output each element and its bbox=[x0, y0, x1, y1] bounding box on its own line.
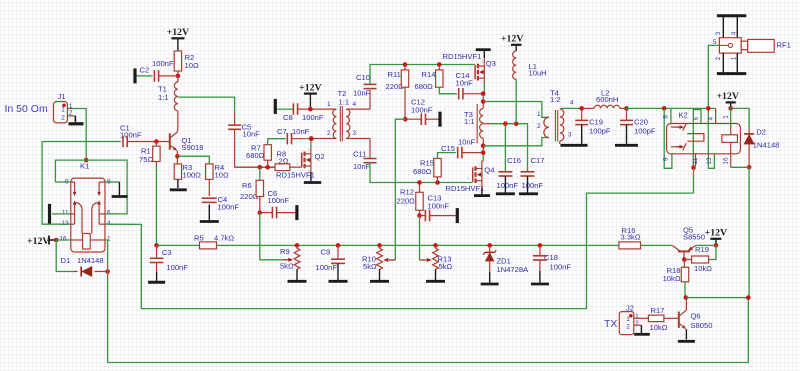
svg-text:C16: C16 bbox=[507, 156, 521, 165]
port C12 terminal bbox=[438, 112, 441, 127]
ground R9 bbox=[288, 280, 307, 283]
junction Q4 drain C15 bbox=[481, 150, 486, 155]
svg-text:TX: TX bbox=[604, 318, 617, 330]
transformer T1 bbox=[158, 76, 178, 129]
wire K1 pin9 bbox=[55, 181, 70, 183]
diode D1 1N4148 bbox=[61, 256, 108, 277]
power +12V K2 bbox=[716, 91, 738, 108]
junction L1 tap bbox=[514, 121, 519, 126]
svg-text:100Ω: 100Ω bbox=[183, 170, 202, 179]
wire C5 to R8 bbox=[235, 166, 276, 168]
wire Q3 gate rail bbox=[405, 64, 475, 66]
svg-text:680Ω: 680Ω bbox=[413, 167, 432, 176]
svg-text:2: 2 bbox=[61, 115, 65, 122]
svg-text:1: 1 bbox=[731, 56, 738, 60]
junction K1 feed bbox=[84, 158, 89, 163]
svg-text:8: 8 bbox=[662, 114, 669, 118]
svg-text:100nF: 100nF bbox=[152, 59, 174, 68]
wire antenna line bbox=[627, 107, 716, 109]
svg-text:4.7kΩ: 4.7kΩ bbox=[214, 234, 234, 243]
svg-text:13: 13 bbox=[706, 157, 713, 165]
wire K2 pin4 stub bbox=[715, 108, 717, 123]
svg-text:100nF: 100nF bbox=[166, 263, 188, 272]
potentiometer R9 bbox=[280, 245, 300, 280]
relay K1 bbox=[59, 162, 111, 253]
junction C16 tap bbox=[503, 121, 508, 126]
capacitor C3 bbox=[150, 245, 188, 281]
svg-text:S8550: S8550 bbox=[683, 233, 705, 242]
svg-text:3: 3 bbox=[481, 59, 484, 64]
svg-text:C9: C9 bbox=[321, 248, 331, 257]
svg-text:1: 1 bbox=[723, 115, 730, 119]
svg-text:R19: R19 bbox=[695, 245, 709, 254]
junction C18 bbox=[538, 243, 543, 248]
svg-text:100nF: 100nF bbox=[428, 202, 450, 211]
capacitor C17 bbox=[521, 156, 545, 193]
svg-text:10uH: 10uH bbox=[529, 68, 547, 77]
junction R10 pot bbox=[377, 243, 382, 248]
svg-text:K2: K2 bbox=[678, 111, 687, 120]
wire RF1 to K2 bbox=[708, 45, 719, 168]
svg-text:100nF: 100nF bbox=[316, 263, 338, 272]
svg-text:16: 16 bbox=[59, 236, 67, 243]
resistor R15 bbox=[413, 153, 456, 183]
svg-text:3: 3 bbox=[568, 132, 572, 139]
resistor R1 bbox=[139, 142, 160, 167]
wire Q4 bias to R13 bbox=[419, 216, 421, 260]
wire K1 loop bbox=[55, 160, 127, 214]
svg-text:220Ω: 220Ω bbox=[397, 196, 416, 205]
svg-text:Q3: Q3 bbox=[486, 59, 496, 68]
junction R14 top bbox=[437, 62, 442, 67]
resistor R18 bbox=[663, 260, 689, 298]
junction R15 bottom bbox=[435, 180, 440, 185]
svg-text:1N4148: 1N4148 bbox=[753, 141, 780, 150]
svg-text:10nF: 10nF bbox=[292, 127, 310, 136]
svg-text:K1: K1 bbox=[80, 162, 89, 171]
wire bias rail bbox=[260, 244, 619, 246]
junction K2 drive bbox=[746, 295, 751, 300]
capacitor C18 bbox=[533, 245, 571, 282]
wire T3 top to T4 pin1 bbox=[483, 102, 549, 118]
junction R18 bottom bbox=[684, 295, 689, 300]
svg-text:+12V: +12V bbox=[27, 236, 49, 247]
junction R6 top bbox=[258, 165, 263, 170]
transistor Q6 S8050 bbox=[679, 298, 713, 340]
potentiometer R10 bbox=[362, 245, 382, 280]
svg-text:2: 2 bbox=[481, 79, 484, 84]
svg-text:11: 11 bbox=[62, 210, 69, 217]
resistor R6 bbox=[240, 167, 264, 212]
resistor R12 bbox=[397, 183, 424, 216]
svg-text:In 50 Om: In 50 Om bbox=[5, 103, 48, 115]
ground C9 bbox=[329, 280, 348, 283]
capacitor C2 bbox=[140, 59, 178, 82]
transistor Q1 S9018 bbox=[170, 129, 204, 157]
transistor Q3 RD15HVF1 bbox=[443, 52, 496, 84]
svg-text:1: 1 bbox=[296, 161, 299, 166]
svg-text:1N4148: 1N4148 bbox=[77, 256, 104, 265]
svg-text:11: 11 bbox=[692, 157, 699, 164]
svg-text:10kΩ: 10kΩ bbox=[694, 264, 712, 273]
wire Q4 drain bbox=[482, 161, 483, 169]
svg-text:2: 2 bbox=[327, 130, 331, 137]
wire Q3 drain lower bbox=[483, 82, 484, 94]
resistor R8 bbox=[275, 150, 302, 171]
transistor Q5 S8550 bbox=[672, 225, 705, 259]
connector J2 bbox=[619, 304, 648, 335]
capacitor C9 bbox=[316, 245, 346, 280]
ground R13 bbox=[426, 280, 445, 283]
svg-text:5kΩ: 5kΩ bbox=[363, 262, 377, 271]
svg-text:R5: R5 bbox=[194, 234, 204, 243]
resistor R2 bbox=[174, 51, 199, 76]
wire T4 pin4 out bbox=[561, 107, 582, 109]
svg-text:+12V: +12V bbox=[716, 91, 738, 102]
resistor R17 bbox=[648, 306, 678, 332]
svg-text:C19: C19 bbox=[589, 118, 603, 127]
wire relay drive bottom bbox=[108, 272, 750, 363]
transformer T4 bbox=[537, 89, 574, 145]
capacitor C14 bbox=[456, 71, 484, 100]
junction K1 pin16 bbox=[54, 238, 59, 243]
power +12V R2 bbox=[167, 27, 189, 51]
svg-text:2: 2 bbox=[307, 148, 310, 153]
svg-text:C20: C20 bbox=[634, 118, 648, 127]
svg-text:10nF: 10nF bbox=[353, 89, 371, 98]
wire Q1 emitter to R4 bbox=[177, 156, 209, 164]
capacitor C6 bbox=[260, 189, 296, 218]
resistor R4 bbox=[206, 163, 229, 180]
svg-text:10Ω: 10Ω bbox=[185, 61, 199, 70]
svg-text:680Ω: 680Ω bbox=[246, 151, 265, 160]
junction rail C3 bbox=[154, 243, 159, 248]
ground C3 bbox=[148, 281, 165, 284]
wiper arrow R9 bbox=[283, 258, 293, 262]
svg-text:1:1: 1:1 bbox=[464, 117, 475, 126]
svg-text:S9018: S9018 bbox=[182, 143, 204, 152]
transformer T3 bbox=[464, 94, 490, 153]
port C2 terminal bbox=[135, 68, 152, 83]
svg-text:100pF: 100pF bbox=[589, 127, 611, 136]
junction Q1 emitter bbox=[175, 154, 180, 159]
svg-text:C7: C7 bbox=[277, 127, 287, 136]
transistor Q4 RD15HVF1 bbox=[446, 162, 495, 193]
junction R7 bottom bbox=[265, 165, 270, 170]
ground C18 bbox=[531, 283, 549, 286]
svg-text:C15: C15 bbox=[441, 144, 455, 153]
capacitor C10 bbox=[353, 65, 405, 110]
junction K2 pin11 node bbox=[691, 165, 696, 170]
resistor R7 bbox=[246, 139, 286, 168]
svg-text:D2: D2 bbox=[756, 128, 766, 137]
wire J1 pin1 to K1 bbox=[72, 109, 86, 161]
node In 50 Om bbox=[5, 103, 48, 115]
junction T3 bottom tap bbox=[481, 144, 486, 149]
svg-text:10kΩ: 10kΩ bbox=[663, 274, 681, 283]
ground Q6 bbox=[678, 340, 695, 343]
svg-text:680Ω: 680Ω bbox=[415, 82, 434, 91]
svg-text:C8: C8 bbox=[283, 113, 293, 122]
wire T3 tap bbox=[490, 124, 528, 172]
port C8 terminal bbox=[275, 99, 293, 114]
wire K1 pin13 input bbox=[42, 142, 121, 225]
port C13 terminal bbox=[456, 208, 459, 223]
junction Q5 base bbox=[682, 257, 687, 262]
connector J1 bbox=[54, 92, 76, 123]
svg-text:10nF: 10nF bbox=[243, 129, 261, 138]
junction D2 anode bbox=[747, 165, 752, 170]
svg-text:C10: C10 bbox=[356, 73, 370, 82]
wire +12V to D2 bbox=[731, 108, 749, 128]
svg-text:3: 3 bbox=[353, 130, 357, 137]
svg-text:1:2: 1:2 bbox=[550, 95, 561, 104]
svg-text:C3: C3 bbox=[162, 248, 172, 257]
power +12V C8 bbox=[299, 82, 321, 109]
junction +12V Q5 bbox=[714, 243, 719, 248]
junction R9 pot bbox=[295, 243, 300, 248]
wire Q4 drain upper bbox=[482, 153, 484, 161]
capacitor C20 bbox=[620, 108, 656, 143]
junction R13 pot bbox=[433, 243, 438, 248]
svg-text:2: 2 bbox=[537, 123, 541, 130]
wire T1 tap bbox=[178, 97, 235, 112]
junction T3 top tap bbox=[481, 99, 486, 104]
junction +12V T2 bbox=[308, 107, 313, 112]
svg-text:2: 2 bbox=[626, 324, 630, 331]
svg-text:4: 4 bbox=[708, 116, 715, 120]
ground Q4 bbox=[474, 188, 490, 196]
wire Q3 bias to R10 bbox=[395, 119, 405, 260]
transistor Q2 RD15HVF1 bbox=[276, 139, 325, 181]
svg-text:R9: R9 bbox=[280, 247, 290, 256]
svg-text:J2: J2 bbox=[626, 304, 634, 313]
wire K2 pin11 out bbox=[693, 168, 695, 193]
wire Q3 drain bbox=[483, 78, 485, 82]
capacitor C1 bbox=[120, 124, 142, 148]
junction C20 bbox=[624, 106, 629, 111]
svg-text:C2: C2 bbox=[140, 66, 150, 75]
potentiometer R13 bbox=[433, 245, 453, 280]
junction T2 pin2 bbox=[309, 136, 314, 141]
junction Q2 bias bbox=[258, 210, 263, 215]
ground ZD1 bbox=[481, 283, 499, 286]
svg-text:2: 2 bbox=[715, 56, 722, 60]
svg-text:100nF: 100nF bbox=[302, 113, 324, 122]
node TX bbox=[604, 318, 617, 330]
junction R11 top bbox=[403, 62, 408, 67]
junction Q2 drain bbox=[309, 136, 314, 141]
capacitor C11 bbox=[353, 139, 420, 183]
svg-text:75Ω: 75Ω bbox=[139, 155, 153, 164]
svg-text:Q6: Q6 bbox=[691, 312, 701, 321]
svg-text:100nF: 100nF bbox=[550, 263, 572, 272]
svg-text:9: 9 bbox=[662, 157, 669, 161]
svg-text:R11: R11 bbox=[388, 70, 401, 79]
junction C9 bbox=[336, 243, 341, 248]
svg-text:+12V: +12V bbox=[705, 228, 727, 239]
ground C20 bbox=[615, 144, 638, 147]
connector RF1 bbox=[713, 16, 791, 74]
svg-text:D1: D1 bbox=[61, 256, 71, 265]
junction Q4 bias bbox=[417, 213, 422, 218]
ground C17 bbox=[519, 192, 538, 195]
resistor R5 bbox=[157, 234, 260, 249]
ground C16 bbox=[496, 192, 515, 195]
svg-text:10nF: 10nF bbox=[458, 138, 476, 147]
svg-text:S8050: S8050 bbox=[691, 321, 713, 330]
svg-text:R14: R14 bbox=[422, 70, 436, 79]
wiper arrow R10 bbox=[383, 258, 395, 262]
svg-text:100nF: 100nF bbox=[522, 181, 544, 190]
power +12V Q5 bbox=[705, 228, 727, 246]
capacitor C4 bbox=[202, 179, 240, 220]
ground J2 pin2 bbox=[634, 325, 650, 334]
svg-text:100nF: 100nF bbox=[497, 181, 519, 190]
wire R1 to rail bbox=[155, 166, 157, 245]
svg-text:1: 1 bbox=[469, 66, 472, 71]
resistor R16 bbox=[619, 226, 672, 249]
svg-text:6: 6 bbox=[693, 116, 700, 120]
resistor R3 bbox=[174, 156, 201, 188]
svg-text:C17: C17 bbox=[531, 156, 545, 165]
svg-text:1N4728A: 1N4728A bbox=[497, 265, 530, 274]
svg-text:+12V: +12V bbox=[299, 82, 321, 93]
capacitor C13 bbox=[420, 194, 456, 222]
capacitor C19 bbox=[575, 108, 611, 143]
wire K2 pin16 stub bbox=[731, 154, 749, 168]
wire K1 pin1 bbox=[105, 240, 108, 272]
svg-text:13: 13 bbox=[61, 220, 69, 227]
wire R18 to K2 coil bbox=[686, 297, 749, 299]
svg-text:4: 4 bbox=[107, 220, 111, 227]
ground J1 pin2 bbox=[69, 116, 84, 124]
power +12V L1 bbox=[501, 34, 523, 51]
junction K2 common node bbox=[706, 106, 711, 111]
svg-text:3: 3 bbox=[715, 31, 722, 35]
svg-text:R17: R17 bbox=[651, 306, 665, 315]
svg-text:4: 4 bbox=[570, 100, 574, 107]
svg-text:100pF: 100pF bbox=[634, 127, 656, 136]
junction Q3 bias bbox=[403, 117, 408, 122]
ground K1 pin8 bbox=[105, 182, 128, 197]
wire K2 coil drive bbox=[748, 167, 750, 297]
wire Q2 bias to R9 bbox=[260, 213, 283, 260]
junction C19 bbox=[579, 106, 584, 111]
wire K2 pin1 stub bbox=[730, 108, 732, 123]
inductor L2 600nH bbox=[582, 89, 627, 109]
svg-text:1:1: 1:1 bbox=[158, 93, 169, 102]
wire K1 pin16 bbox=[56, 239, 71, 241]
svg-text:600nH: 600nH bbox=[596, 95, 618, 104]
wire C1 to Q1 base bbox=[127, 141, 170, 143]
svg-text:100nF: 100nF bbox=[411, 106, 433, 115]
resistor R11 bbox=[386, 65, 409, 120]
svg-text:RD15HVF1: RD15HVF1 bbox=[443, 52, 482, 61]
wire K2 pin6 loop bbox=[693, 110, 701, 168]
wire K1 pin4 to bypass bbox=[105, 193, 694, 309]
capacitor C16 bbox=[497, 124, 521, 193]
wire Q4 source bbox=[481, 181, 483, 188]
capacitor C7 bbox=[277, 127, 312, 144]
resistor R19 bbox=[684, 245, 716, 273]
port K1 pin11 bbox=[50, 204, 71, 224]
svg-text:C11: C11 bbox=[353, 150, 366, 159]
capacitor C12 bbox=[405, 98, 438, 126]
svg-text:1: 1 bbox=[626, 316, 630, 323]
svg-text:6: 6 bbox=[107, 210, 111, 217]
transformer T2 bbox=[311, 89, 370, 142]
svg-text:4: 4 bbox=[731, 31, 738, 35]
ground Q3 source bbox=[476, 50, 491, 66]
svg-text:5kΩ: 5kΩ bbox=[439, 262, 453, 271]
svg-text:1: 1 bbox=[61, 107, 65, 114]
ground T4 C19 bbox=[561, 144, 588, 147]
wire Q4 gate rail bbox=[420, 182, 473, 184]
junction D1 anode bbox=[105, 269, 110, 274]
junction ZD1 bbox=[487, 243, 492, 248]
capacitor C8 bbox=[283, 103, 336, 122]
svg-text:16: 16 bbox=[723, 157, 730, 165]
svg-text:J1: J1 bbox=[58, 92, 66, 101]
svg-text:Q4: Q4 bbox=[484, 166, 494, 175]
svg-text:4: 4 bbox=[353, 101, 357, 108]
ground R10 bbox=[370, 280, 389, 283]
svg-text:10nF: 10nF bbox=[456, 79, 474, 88]
svg-text:R6: R6 bbox=[242, 181, 252, 190]
wire Q6 collector bbox=[685, 297, 688, 299]
capacitor C5 bbox=[228, 113, 260, 168]
wire K2 pin8 stub bbox=[670, 108, 672, 123]
svg-text:1:1: 1:1 bbox=[339, 98, 350, 107]
inductor L1 10uH bbox=[513, 51, 547, 124]
junction K2 pin8 node bbox=[662, 106, 667, 111]
power +12V K1 bbox=[27, 236, 56, 248]
svg-text:RF1: RF1 bbox=[777, 41, 791, 50]
svg-text:100nF: 100nF bbox=[268, 196, 290, 205]
svg-text:1: 1 bbox=[537, 111, 541, 118]
ground R3 bbox=[170, 188, 187, 191]
svg-text:Q2: Q2 bbox=[315, 152, 325, 161]
resistor R14 bbox=[415, 65, 457, 94]
capacitor C15 bbox=[441, 138, 483, 159]
svg-text:+12V: +12V bbox=[501, 34, 523, 45]
svg-text:+12V: +12V bbox=[167, 27, 189, 38]
ground Q2 bbox=[304, 181, 321, 184]
zener ZD1 1N4728A bbox=[483, 245, 529, 283]
svg-text:10kΩ: 10kΩ bbox=[650, 323, 668, 332]
junction R1 top bbox=[154, 139, 159, 144]
port C6 terminal bbox=[295, 205, 298, 220]
junction K2 pin1 bbox=[728, 106, 733, 111]
wire T3 bottom to T4 pin2 bbox=[483, 138, 549, 146]
wire Q5 emitter bbox=[696, 244, 716, 246]
svg-text:10Ω: 10Ω bbox=[215, 170, 229, 179]
svg-text:5kΩ: 5kΩ bbox=[280, 261, 294, 270]
ground C4 bbox=[200, 220, 219, 223]
wiper arrow R13 bbox=[420, 258, 432, 262]
relay K2 bbox=[662, 111, 740, 165]
junction R12 top bbox=[417, 180, 422, 185]
svg-text:R12: R12 bbox=[400, 188, 414, 197]
svg-text:2: 2 bbox=[478, 162, 481, 167]
junction Q3 drain C14 bbox=[481, 91, 486, 96]
svg-text:1: 1 bbox=[467, 176, 470, 181]
wire K2 pin9 loop bbox=[664, 108, 672, 168]
wire K2 pin11 stub bbox=[694, 154, 696, 168]
svg-text:1: 1 bbox=[327, 101, 331, 108]
svg-text:100nF: 100nF bbox=[218, 202, 240, 211]
